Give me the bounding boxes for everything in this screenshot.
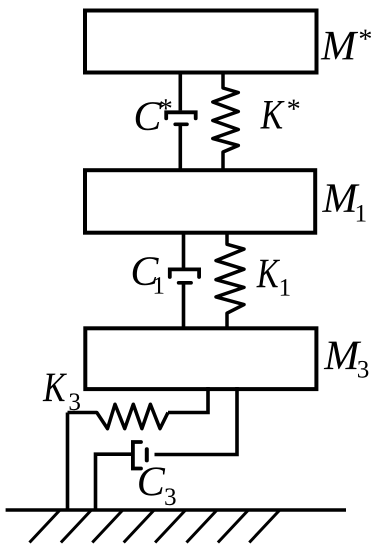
label K1 (256, 260, 289, 296)
label C3 (139, 467, 175, 505)
damper C* piston plate (175, 123, 187, 127)
ground hatching (30, 511, 280, 543)
label M3 (324, 342, 369, 378)
mass M3 (bottom rigid block) (85, 328, 316, 389)
damper C1 piston plate (179, 281, 192, 285)
label M1 (322, 184, 366, 221)
wire spring K3 to ground (66, 413, 70, 511)
mass M* (top rigid block) (85, 11, 317, 73)
label K3 (43, 374, 80, 411)
mass M1 (middle rigid block) (85, 170, 315, 233)
wire M3 to damper C3 (155, 387, 238, 455)
label M* (321, 30, 371, 60)
label C1 (133, 257, 164, 294)
damper C1 cylinder cup (170, 269, 199, 277)
ground line (6, 508, 346, 512)
spring K* (between M* and M1) (213, 73, 239, 171)
damper C3 cylinder cup (133, 442, 141, 469)
wire damper C* to mass M1 (179, 124, 183, 170)
wire M1 to damper C1 (182, 233, 186, 268)
label C* (136, 99, 172, 130)
damper C3 piston plate (145, 449, 149, 460)
damper C* cylinder cup (166, 112, 196, 118)
spring K1 (between M1 and M3) (216, 233, 244, 329)
wire M* to damper C* (179, 73, 183, 111)
wire damper C3 to ground (96, 454, 132, 510)
wire damper C1 to mass M3 (182, 283, 186, 328)
label K* (260, 100, 299, 129)
wire M3 to spring K3 (168, 387, 208, 413)
spring K3 (horizontal, M3 to ground) (68, 404, 169, 428)
